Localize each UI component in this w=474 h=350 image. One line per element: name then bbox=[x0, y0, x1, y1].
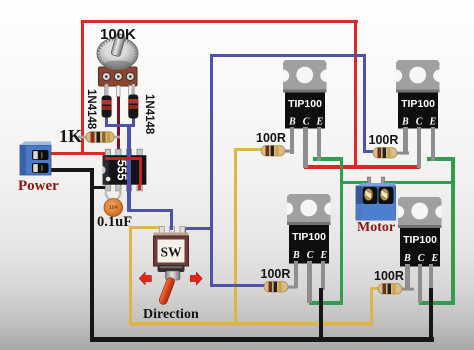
wire red right vertical bbox=[354, 20, 357, 169]
wire green bracket TIP3.C bbox=[309, 301, 344, 305]
svg-text:C: C bbox=[418, 253, 425, 264]
label 100R row2-left bbox=[261, 268, 291, 280]
wire yellow to switch left pin bbox=[129, 226, 161, 229]
wire red Power to 555 pin1 bbox=[45, 152, 109, 155]
pin Q1.E bbox=[317, 127, 321, 161]
IC U1 555 timer bbox=[100, 148, 150, 192]
pin Q3.E bbox=[321, 261, 325, 290]
wire green bracket TIP4.C bbox=[419, 301, 454, 305]
svg-text:SW: SW bbox=[160, 245, 182, 260]
wire green TIP2.E right bbox=[427, 157, 455, 161]
wire blue drop to switch mid pin bbox=[170, 209, 173, 230]
label Motor bbox=[357, 221, 395, 234]
toggle switch SW bbox=[136, 224, 208, 312]
svg-text:TIP100: TIP100 bbox=[292, 231, 326, 243]
svg-text:B: B bbox=[287, 116, 295, 127]
pin Q2.C bbox=[417, 127, 421, 168]
svg-text:E: E bbox=[319, 250, 327, 261]
wire blue vertical x364 to 100R bbox=[363, 54, 366, 153]
wire red 555 top edge bbox=[105, 157, 142, 160]
resistor 100R row2-left bbox=[255, 280, 297, 294]
wire yellow bottom horizontal bbox=[129, 322, 372, 325]
wire blue to switch right pin bbox=[183, 227, 213, 230]
wire green right vertical x452.5 bbox=[451, 157, 455, 305]
label 1K bbox=[59, 129, 82, 144]
resistor 1K bbox=[78, 130, 122, 145]
transistor Q3 TIP100 bottom-left bbox=[287, 194, 331, 264]
label 1N4148 left bbox=[85, 89, 97, 126]
svg-text:TIP100: TIP100 bbox=[401, 98, 435, 110]
wire black to 555 GND pin bbox=[92, 186, 109, 190]
wire black ground vertical bbox=[90, 168, 94, 340]
label 100R row2-right bbox=[374, 270, 404, 282]
pin Q4.B bbox=[405, 264, 409, 290]
wire blue diode junction horizontal bbox=[105, 124, 135, 127]
wire black Power to ground corner bbox=[45, 168, 93, 172]
svg-text:E: E bbox=[431, 253, 439, 264]
capacitor C1 0.1uF bbox=[98, 185, 130, 219]
svg-text:555: 555 bbox=[115, 160, 129, 181]
pin Q1.B bbox=[290, 127, 294, 154]
transistor Q1 TIP100 top-left bbox=[283, 60, 327, 130]
wire blue 555 pin3 vertical over chip bbox=[127, 125, 130, 212]
label 100R row1-right bbox=[369, 134, 399, 146]
wire red 555 pin4 stub bbox=[138, 184, 141, 190]
terminal block Motor bbox=[354, 176, 398, 222]
pin Q4.C bbox=[418, 264, 422, 303]
wire black bottom ground bus bbox=[90, 337, 434, 342]
wire blue left diode lead drop bbox=[105, 117, 108, 126]
wire blue to 100R row2-left bbox=[210, 284, 265, 287]
pin Q1.C bbox=[303, 127, 307, 168]
wire green left vertical x341.5 bbox=[340, 157, 344, 305]
resistor 100R row1-left bbox=[252, 144, 294, 158]
transistor Q4 TIP100 bottom-right bbox=[398, 197, 442, 267]
wire black Q4.E to ground bus bbox=[429, 288, 433, 340]
label Direction bbox=[143, 308, 199, 321]
diode D1 1N4148 left bbox=[100, 84, 114, 120]
wire red left vertical bbox=[81, 20, 84, 155]
wire blue right diode lead drop bbox=[132, 118, 135, 126]
pin Q3.C bbox=[307, 261, 311, 303]
wire blue horizontal to switch mid pin bbox=[128, 209, 173, 212]
wire blue stub into 100R row1-right bbox=[363, 150, 375, 153]
resistor 100R row1-right bbox=[371, 146, 413, 160]
svg-text:B: B bbox=[403, 253, 411, 264]
wire green to motor right terminal bbox=[383, 181, 453, 184]
label 0.1uF bbox=[97, 216, 132, 229]
svg-text:104: 104 bbox=[109, 205, 119, 211]
svg-text:C: C bbox=[302, 116, 309, 127]
wire yellow vertical up to 100R row2-right bbox=[370, 287, 373, 326]
svg-text:E: E bbox=[428, 116, 436, 127]
wire green to motor left terminal bbox=[341, 181, 369, 184]
wire blue main vertical x211 bbox=[210, 54, 213, 287]
svg-text:TIP100: TIP100 bbox=[403, 234, 437, 246]
wire red 555 right edge bbox=[139, 157, 142, 184]
svg-text:B: B bbox=[401, 116, 409, 127]
wire dark-red pot wiper to 555 pin2 bbox=[117, 92, 120, 153]
svg-text:B: B bbox=[291, 250, 299, 261]
wire red collector bus TIP1.C to TIP2.C bbox=[304, 165, 421, 169]
pin Q4.E bbox=[429, 264, 433, 290]
wire red top horizontal (+V rail) bbox=[81, 20, 358, 23]
pin Q3.B bbox=[294, 261, 298, 288]
arrow left red bbox=[139, 270, 154, 287]
wire green TIP1.E right bbox=[313, 157, 343, 161]
potentiometer 100K bbox=[93, 31, 161, 97]
transistor Q2 TIP100 top-right bbox=[396, 60, 440, 130]
arrow right red bbox=[190, 270, 205, 287]
pin Q2.B bbox=[403, 127, 407, 154]
wire blue top horizontal y55 bbox=[210, 54, 366, 57]
svg-text:E: E bbox=[315, 116, 323, 127]
svg-text:C: C bbox=[306, 250, 313, 261]
resistor 100R row2-right bbox=[376, 282, 418, 296]
terminal block Power bbox=[19, 140, 53, 176]
label 100K bbox=[100, 28, 136, 41]
diode D2 1N4148 right bbox=[127, 84, 141, 121]
wire yellow stub into 100R row2-right bbox=[370, 287, 380, 290]
label 100R row1-left bbox=[256, 132, 286, 144]
label Power bbox=[18, 180, 59, 193]
wire black Q3.E to ground bus bbox=[319, 288, 323, 340]
wire yellow horizontal to 100R row1-left bbox=[234, 148, 263, 151]
wire blue stub down to switch right pin bbox=[183, 227, 186, 233]
pin Q2.E bbox=[431, 127, 435, 161]
svg-text:C: C bbox=[416, 116, 423, 127]
wire yellow vertical x130 (Direction box left) bbox=[129, 226, 132, 326]
svg-text:TIP100: TIP100 bbox=[288, 98, 322, 110]
label 1N4148 right bbox=[143, 94, 155, 131]
wire yellow vertical x235 bbox=[234, 148, 237, 326]
